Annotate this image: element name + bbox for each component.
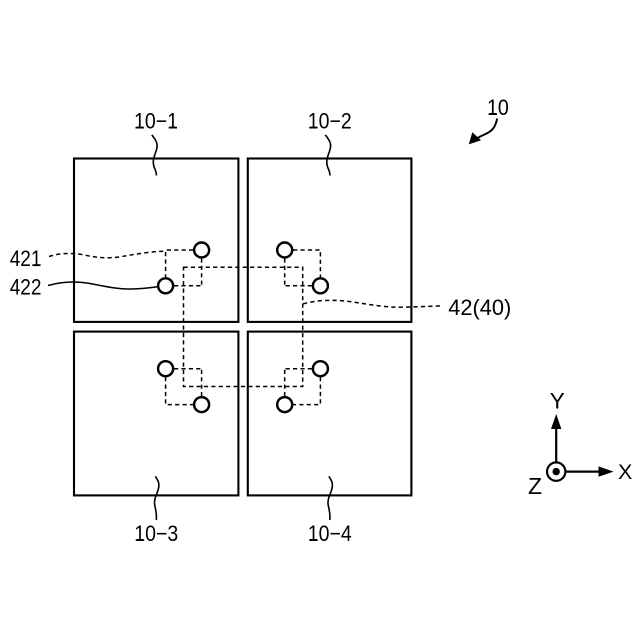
svg-text:X: X — [618, 460, 632, 484]
leader 422 (solid wavy to circle B) — [48, 282, 157, 289]
axis Y arrow — [555, 427, 557, 462]
leader squiggle for 10-2 — [325, 135, 330, 176]
leader squiggle for 10-3 — [154, 476, 158, 520]
wire vertical from circle H to loop corner — [284, 369, 286, 397]
wire 42 loop (big dashed rectangle) — [184, 267, 303, 386]
wire horizontal from circle G to loop corner — [285, 368, 312, 370]
wire L in panel 10-4 (circle G down-left to circle H) — [293, 377, 320, 405]
svg-text:10: 10 — [487, 95, 509, 120]
panel 10-4 (bottom-right square) — [248, 332, 412, 496]
axis Y arrowhead — [551, 414, 561, 429]
axis Z origin dot — [553, 468, 560, 475]
leader squiggle for 10-1 — [152, 135, 157, 176]
wire horizontal from circle D to loop corner — [285, 285, 312, 287]
wire vertical from circle F to loop corner — [201, 369, 203, 397]
svg-text:42(40): 42(40) — [448, 295, 511, 320]
wire horizontal from circle B to loop corner — [174, 285, 202, 287]
svg-text:10−1: 10−1 — [134, 108, 178, 133]
svg-text:422: 422 — [10, 275, 42, 300]
axis X arrow — [566, 471, 601, 473]
serif feet for digit 1 glyphs — [34, 113, 497, 541]
leader 42(40) (dashed wavy) — [303, 300, 443, 307]
leader squiggle for 10-4 — [328, 476, 332, 520]
panel 10-3 (bottom-left square) — [74, 332, 238, 496]
wire vertical from circle C to loop corner — [284, 258, 286, 285]
axis Z origin circle — [547, 462, 565, 480]
wire L 421 in panel 10-1 (circle A left-down to circle B) — [166, 250, 194, 277]
svg-text:10−2: 10−2 — [308, 108, 352, 133]
electrode circle B (panel 10-1 left) — [158, 278, 173, 293]
wire L in panel 10-2 (circle C right-down to circle D) — [293, 250, 320, 277]
leader 421 (dashed wavy) — [49, 251, 164, 258]
electrode circle E (panel 10-3 left) — [158, 361, 173, 376]
arrow for label 10 — [476, 119, 497, 139]
arrowhead for label 10 — [469, 132, 481, 144]
electrode circle F (panel 10-3 bottom) — [194, 397, 209, 412]
electrode circle C (panel 10-2 top) — [277, 243, 292, 258]
electrode circle G (panel 10-4 right) — [313, 361, 328, 376]
wire vertical from circle A to loop corner — [201, 258, 203, 285]
electrode circle A (panel 10-1 top) — [194, 243, 209, 258]
svg-text:421: 421 — [10, 246, 42, 271]
electrode circle D (panel 10-2 right) — [313, 278, 328, 293]
axis X arrowhead — [599, 466, 614, 476]
electrode circle H (panel 10-4 bottom) — [277, 397, 292, 412]
panel 10-1 (top-left square) — [74, 159, 238, 322]
svg-text:Z: Z — [528, 473, 542, 499]
wire L in panel 10-3 (circle E down-right to circle F) — [166, 377, 194, 405]
svg-text:Y: Y — [550, 388, 565, 413]
svg-text:10−3: 10−3 — [134, 521, 178, 546]
panel 10-2 (top-right square) — [248, 159, 412, 322]
wire horizontal from circle E to loop corner — [174, 368, 202, 370]
svg-text:10−4: 10−4 — [308, 521, 352, 546]
